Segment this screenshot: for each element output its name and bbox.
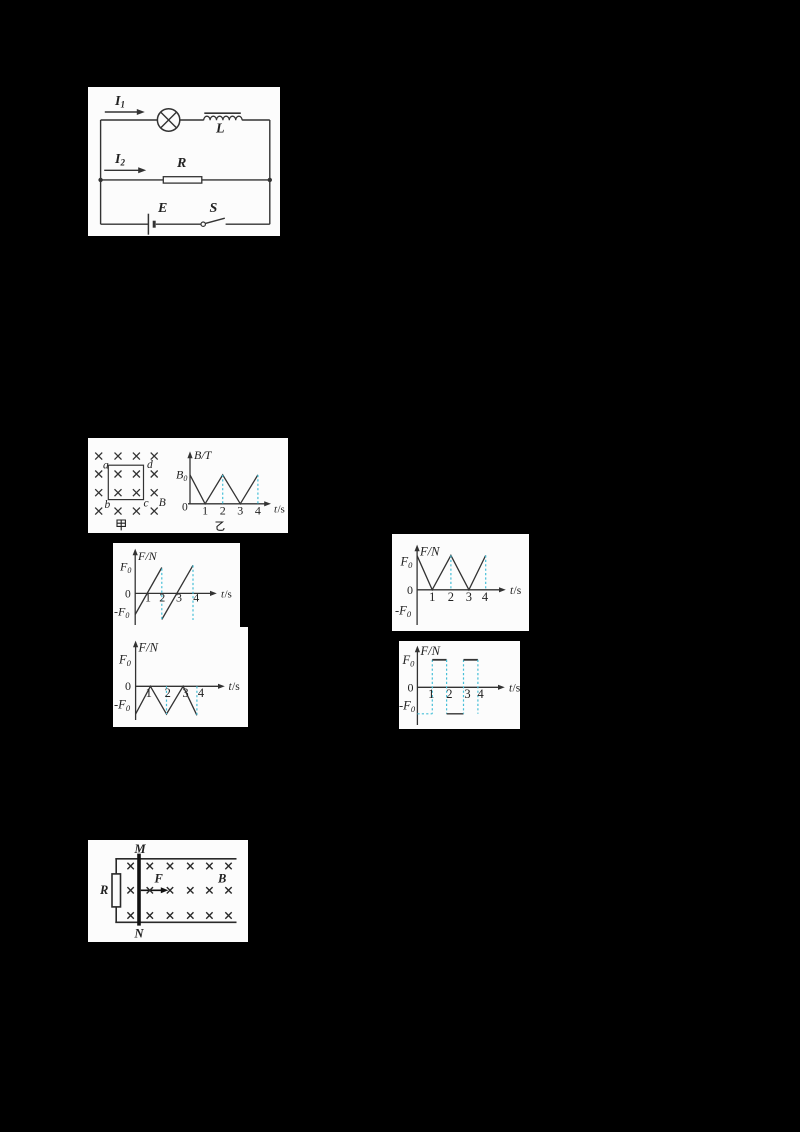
rail top M [115, 858, 236, 860]
svg-text:F0: F0 [402, 653, 416, 669]
svg-text:4: 4 [198, 686, 205, 700]
svg-text:S: S [210, 201, 218, 216]
svg-text:F/N: F/N [419, 545, 440, 559]
label yi (Chinese) [216, 522, 225, 530]
figure option A: sawtooth F-t graph [113, 543, 240, 627]
svg-text:I2: I2 [114, 152, 125, 168]
wire middle branch right [202, 179, 270, 181]
field X marks grid [95, 453, 158, 515]
svg-text:1: 1 [428, 687, 434, 701]
resistor R [163, 177, 202, 183]
svg-text:N: N [134, 927, 145, 941]
axis arrow up [187, 451, 192, 458]
svg-text:F/N: F/N [137, 549, 158, 563]
svg-text:R: R [176, 156, 186, 171]
sawtooth segment 2 [162, 565, 193, 619]
axis arrow right [210, 591, 217, 596]
svg-text:B0: B0 [176, 468, 187, 484]
current I2 arrow [104, 167, 146, 173]
wire middle branch left [101, 179, 164, 181]
svg-text:0: 0 [125, 589, 131, 601]
svg-text:1: 1 [145, 591, 151, 605]
wire battery to switch [156, 223, 201, 225]
dashed t=4 [192, 565, 194, 620]
dashed t=4 vertical [477, 660, 479, 714]
axis arrow up [415, 545, 420, 552]
svg-text:B/T: B/T [194, 448, 213, 462]
svg-text:3: 3 [237, 504, 243, 518]
node left junction [98, 178, 102, 182]
svg-text:M: M [134, 842, 147, 856]
field X marks [127, 863, 231, 919]
inductor L coil [204, 113, 242, 120]
figure 2: loop abcd in field (jia) and B-t graph (yi) [88, 438, 288, 533]
svg-text:0: 0 [182, 502, 188, 514]
sawtooth segment 1 [135, 568, 162, 615]
svg-text:-F0: -F0 [114, 605, 129, 621]
svg-text:/s: /s [514, 585, 522, 597]
figure option C: negative triangle F-t graph [113, 627, 248, 727]
figure option D: square wave F-t graph [399, 641, 520, 729]
force F arrow [141, 887, 169, 893]
dashed -F0 0 to 1 [417, 713, 432, 715]
label jia (Chinese) [117, 520, 125, 530]
axes [417, 650, 500, 726]
svg-text:0: 0 [125, 679, 131, 693]
svg-text:b: b [105, 499, 111, 511]
wire inductor to right [242, 119, 270, 121]
svg-text:F: F [154, 872, 164, 886]
wire top branch left segment [101, 119, 158, 121]
battery E [148, 214, 154, 235]
loop abcd square [108, 465, 143, 499]
wire bottom to battery [101, 223, 149, 225]
wire left top [115, 859, 117, 874]
svg-text:4: 4 [482, 590, 489, 604]
svg-text:1: 1 [429, 590, 435, 604]
inverted triangle wave [136, 686, 197, 715]
dashed t=4 [257, 475, 259, 504]
dashed t=3 vertical [463, 660, 465, 714]
svg-text:B: B [217, 872, 226, 886]
wire lamp to inductor [180, 119, 204, 121]
bar F0 3 to 4 [464, 659, 478, 661]
svg-text:3: 3 [466, 590, 472, 604]
rail bottom N [115, 921, 236, 923]
dashed t=4 [196, 686, 198, 715]
svg-text:E: E [157, 201, 167, 216]
F axis vertical [135, 553, 212, 626]
svg-text:F0: F0 [118, 653, 132, 669]
svg-text:3: 3 [176, 591, 182, 605]
wire right vertical [269, 120, 271, 224]
svg-text:F0: F0 [400, 555, 414, 571]
axes [417, 549, 501, 626]
axis arrow right [218, 684, 225, 689]
axis arrow up [133, 549, 138, 556]
svg-text:-F0: -F0 [395, 604, 412, 620]
dashed t=2 [161, 569, 163, 620]
svg-text:d: d [147, 459, 153, 471]
dashed t=2 vertical [446, 660, 448, 714]
axis arrow up [133, 641, 138, 648]
svg-text:/s: /s [225, 589, 232, 601]
svg-text:3: 3 [464, 687, 470, 701]
svg-text:/s: /s [278, 504, 285, 516]
dashed t=4 [485, 555, 487, 589]
bar F0 1 to 2 [432, 659, 446, 661]
svg-text:0: 0 [408, 681, 414, 695]
axis arrow right [499, 587, 506, 592]
current I1 arrow [105, 109, 145, 115]
svg-text:4: 4 [255, 504, 261, 518]
svg-text:I1: I1 [114, 94, 125, 110]
B-t graph vertical axis [188, 456, 267, 504]
svg-text:2: 2 [159, 591, 165, 605]
dashed t=2 [450, 555, 452, 589]
figure option B: positive triangle F-t graph [392, 534, 529, 631]
svg-text:-F0: -F0 [114, 698, 131, 714]
node right junction [268, 178, 272, 182]
figure 3: rail circuit with bar MN in field [88, 840, 248, 942]
axis arrow right [264, 501, 271, 506]
svg-text:F/N: F/N [420, 644, 441, 658]
resistor R [112, 874, 121, 907]
bar -F0 2 to 3 [447, 713, 464, 715]
svg-text:L: L [215, 122, 225, 137]
axes [136, 645, 221, 721]
dashed t=2 [222, 475, 224, 504]
svg-text:R: R [99, 883, 108, 897]
svg-text:2: 2 [446, 687, 452, 701]
lamp (circle with X) [157, 109, 179, 131]
svg-text:/s: /s [513, 683, 521, 695]
conducting bar MN [137, 854, 141, 926]
figure 1: RL circuit panel [88, 87, 280, 236]
svg-text:2: 2 [448, 590, 454, 604]
svg-text:a: a [103, 460, 109, 472]
dashed t=2 [166, 686, 168, 714]
B zigzag curve [190, 475, 258, 504]
svg-text:1: 1 [202, 504, 208, 518]
svg-text:/s: /s [232, 681, 240, 693]
svg-text:B: B [159, 497, 166, 509]
svg-text:4: 4 [193, 591, 199, 605]
dashed t=1 vertical [431, 660, 433, 714]
axis arrow up [415, 646, 420, 653]
wire switch to right [226, 223, 270, 225]
svg-text:0: 0 [407, 583, 413, 597]
wire left vertical [100, 120, 102, 224]
switch S [201, 218, 225, 226]
svg-text:2: 2 [220, 504, 226, 518]
svg-text:3: 3 [182, 686, 188, 700]
axis arrow right [498, 685, 505, 690]
svg-text:-F0: -F0 [399, 699, 416, 715]
triangle wave [417, 555, 486, 589]
wire left bottom [115, 907, 117, 922]
svg-text:F/N: F/N [138, 641, 159, 655]
svg-text:4: 4 [477, 687, 484, 701]
svg-text:2: 2 [165, 686, 171, 700]
svg-text:F0: F0 [119, 560, 131, 576]
svg-text:c: c [144, 498, 149, 510]
svg-text:1: 1 [146, 686, 152, 700]
